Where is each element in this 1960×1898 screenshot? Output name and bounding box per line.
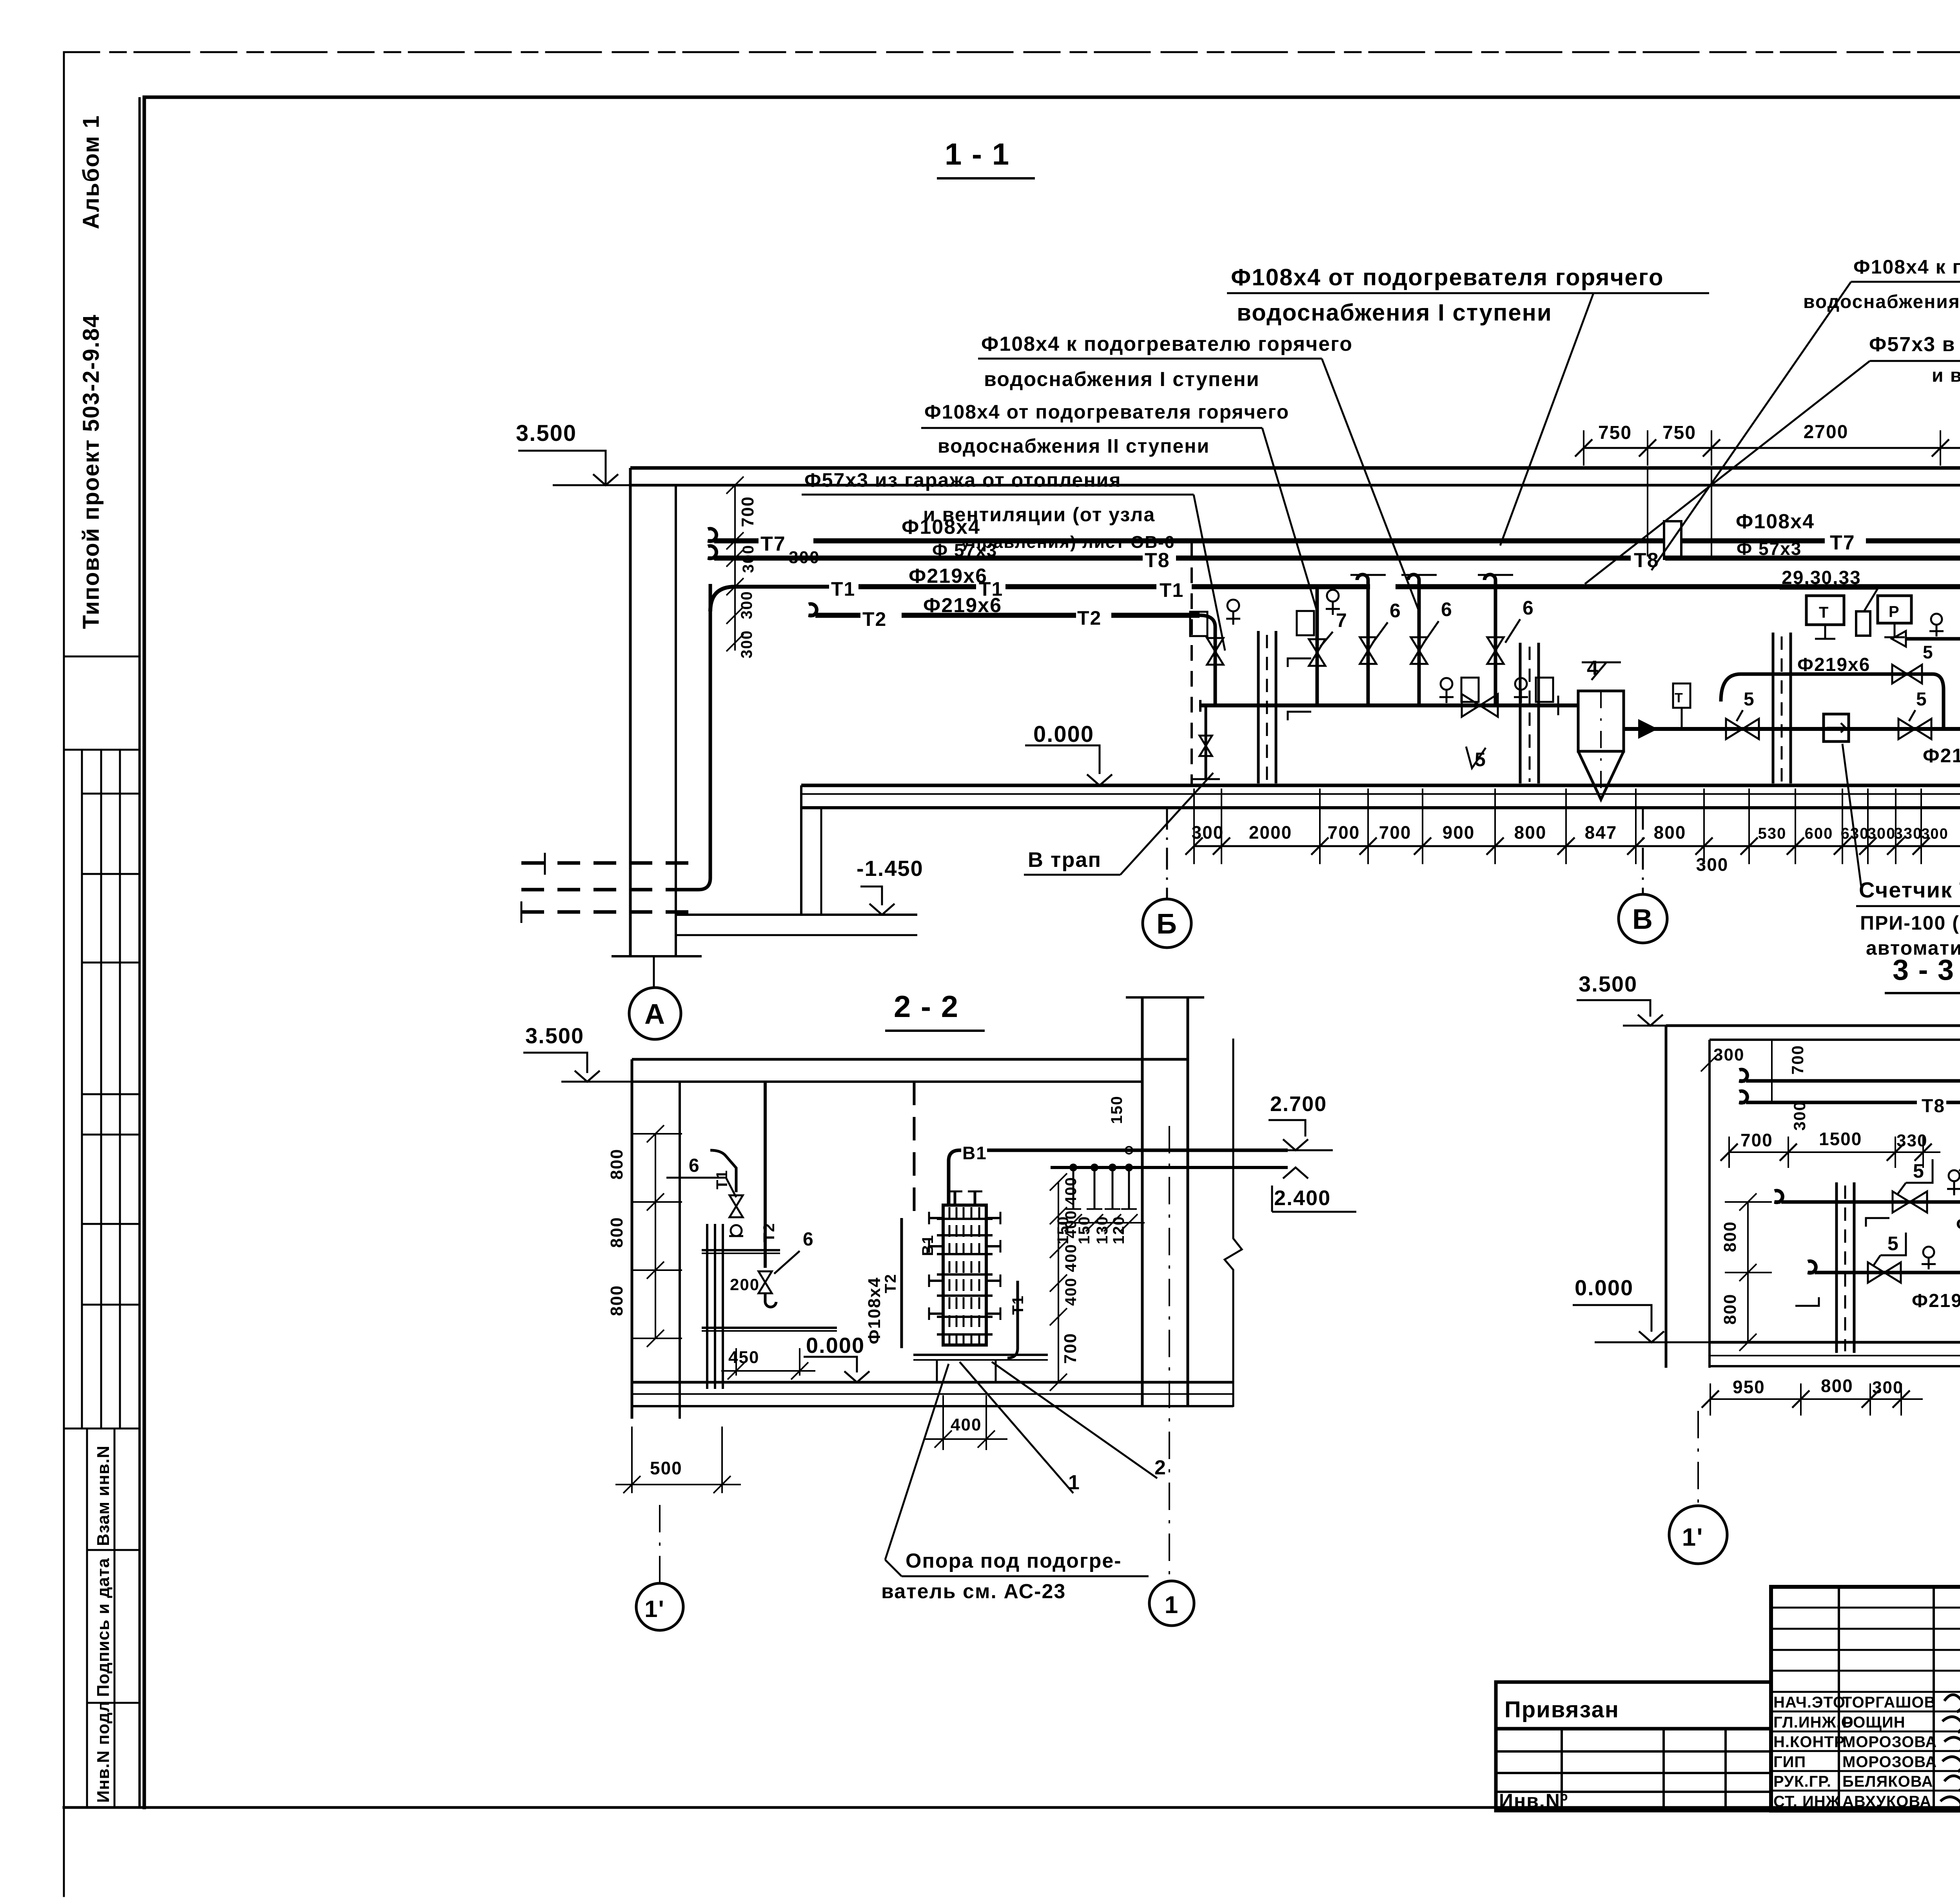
svg-text:ПРИ-100 (см. проект: ПРИ-100 (см. проект (1860, 912, 1960, 934)
svg-text:Т8: Т8 (1922, 1096, 1945, 1117)
svg-text:Т1: Т1 (831, 578, 855, 600)
svg-text:1': 1' (1682, 1523, 1704, 1551)
svg-text:Ф108х4: Ф108х4 (1736, 510, 1815, 533)
svg-text:900: 900 (1443, 822, 1475, 843)
svg-text:300: 300 (738, 591, 755, 619)
T2 elbow down at manifold start (1200, 615, 1215, 705)
svg-text:Привязан: Привязан (1504, 1697, 1619, 1722)
left margin table column lines (81, 750, 83, 1428)
svg-text:700: 700 (1061, 1333, 1080, 1364)
svg-text:водоснабжения II ступени: водоснабжения II ступени (938, 435, 1210, 457)
sheet outer border bottom (64, 1806, 1960, 1809)
svg-text:Ф108х4 к подогревателю горяче: Ф108х4 к подогревателю горячего (981, 333, 1353, 355)
svg-text:Т2: Т2 (862, 608, 887, 630)
svg-text:2000: 2000 (1249, 822, 1292, 843)
svg-text:6: 6 (689, 1155, 700, 1176)
valve 5 (second) on lower pipe (1898, 719, 1931, 739)
pipe T8 (3-3) (1739, 1091, 1747, 1103)
svg-text:Н.КОНТР.: Н.КОНТР. (1773, 1733, 1847, 1751)
ceiling slab section 1-1 (630, 466, 1960, 470)
svg-text:Инв.N подл: Инв.N подл (94, 1701, 113, 1803)
svg-text:600: 600 (1805, 825, 1833, 842)
svg-text:Т2: Т2 (1077, 607, 1102, 629)
svg-text:Взам инв.N: Взам инв.N (94, 1445, 113, 1546)
signature squiggles (1944, 1695, 1960, 1729)
column bubble 1 (2-2) (1149, 1581, 1194, 1626)
svg-text:Т2: Т2 (882, 1273, 899, 1293)
four take-off drops with dots (1069, 1164, 1077, 1171)
svg-text:800: 800 (1821, 1376, 1853, 1396)
left margin table row lines (64, 656, 140, 658)
svg-text:В: В (1632, 904, 1653, 935)
svg-text:Ф57х3 из гаража от отопления: Ф57х3 из гаража от отопления (804, 469, 1122, 491)
floor step to pit (800, 785, 802, 915)
pipe T2 (y=1570) (809, 604, 817, 616)
svg-text:0.000: 0.000 (806, 1333, 865, 1358)
heat exchanger (подогреватель) (943, 1205, 986, 1345)
svg-text:800: 800 (1514, 822, 1547, 843)
svg-text:5: 5 (1923, 642, 1934, 662)
pipe T7 (3-3) (1739, 1070, 1747, 1081)
svg-text:6: 6 (1523, 597, 1534, 619)
svg-text:Ф108х4 от подогревателя горяч: Ф108х4 от подогревателя горячего (924, 401, 1289, 423)
pipe rack 2-2 (706, 1224, 708, 1389)
svg-text:847: 847 (1585, 822, 1617, 843)
svg-text:700: 700 (1788, 1045, 1807, 1075)
support stand x=3890 (dashed pair) (1519, 643, 1522, 783)
vertical pipes at exchanger (913, 1082, 916, 1218)
svg-text:ГИП: ГИП (1773, 1753, 1806, 1771)
svg-text:700: 700 (1379, 822, 1412, 843)
svg-text:5: 5 (1475, 749, 1486, 770)
svg-text:Т8: Т8 (1145, 549, 1170, 572)
pit floor -1.450 (676, 914, 917, 916)
pipe y=1630 to separator (1906, 637, 1960, 641)
svg-text:Ф108х4: Ф108х4 (865, 1277, 884, 1344)
svg-text:МОРОЗОВА: МОРОЗОВА (1842, 1753, 1937, 1771)
signature table vertical dividers (1838, 1587, 1840, 1811)
dim 400 under exchanger (942, 1395, 944, 1450)
svg-text:800: 800 (607, 1285, 626, 1316)
pipe T1 (y=1497) (710, 587, 829, 611)
column bubble А (629, 988, 681, 1039)
svg-text:Т7: Т7 (1830, 531, 1855, 554)
svg-text:400: 400 (1062, 1177, 1080, 1205)
svg-text:Т8: Т8 (1634, 549, 1659, 572)
svg-text:Инв.Nº: Инв.Nº (1499, 1790, 1568, 1812)
svg-text:водоснабжения II ступени: водоснабжения II ступени (1803, 292, 1960, 312)
floor 0.000 (3-3) (1710, 1341, 1960, 1344)
check valve after tank (1624, 727, 1701, 731)
lower pipe y=1860 with fittings (1701, 727, 1960, 731)
extension verticals from top dim to pipes (1647, 466, 1648, 557)
svg-text:и вентиляцию (к узлу: и вентиляцию (к узлу (1932, 365, 1960, 386)
svg-text:БЕЛЯКОВА: БЕЛЯКОВА (1842, 1773, 1933, 1790)
svg-text:7: 7 (1336, 609, 1348, 631)
riser x=3815 (1485, 575, 1495, 705)
svg-text:2: 2 (1154, 1456, 1167, 1479)
axis dashed line of column Б (1191, 542, 1193, 784)
svg-text:700: 700 (738, 496, 757, 527)
dim chain 700 1500 330 (y=2940) (1729, 1151, 1940, 1153)
svg-text:330: 330 (1896, 1131, 1927, 1150)
svg-text:Альбом 1: Альбом 1 (78, 115, 104, 229)
valve 5 on manifold (1462, 694, 1498, 717)
svg-text:водоснабжения I ступени: водоснабжения I ступени (1237, 299, 1552, 326)
svg-text:-1.450: -1.450 (857, 856, 924, 881)
svg-text:Б: Б (1156, 908, 1178, 940)
svg-text:НАЧ.ЭТО: НАЧ.ЭТО (1773, 1694, 1846, 1711)
inline device on pipe T7 (1664, 521, 1681, 559)
svg-text:Типовой проект 503-2-9.84: Типовой проект 503-2-9.84 (78, 314, 104, 629)
floor slab 0.000 section 1-1 (801, 784, 1960, 787)
svg-text:29,30,33: 29,30,33 (1782, 567, 1861, 588)
bottom dim chain 950 800 300 (3-3) (1710, 1398, 1923, 1400)
svg-text:Ф219х6: Ф219х6 (909, 565, 987, 587)
svg-text:Опора под подогре-: Опора под подогре- (906, 1550, 1122, 1572)
left extension: Привязан box (1496, 1682, 1771, 1729)
svg-text:Т1: Т1 (1009, 1295, 1027, 1315)
svg-text:300: 300 (1872, 1378, 1903, 1397)
axis line to bubble 1 (1169, 1126, 1170, 1579)
svg-text:700: 700 (1740, 1130, 1773, 1150)
svg-text:А: А (644, 999, 666, 1030)
svg-text:Ф219х6: Ф219х6 (1923, 745, 1960, 767)
svg-text:750: 750 (1662, 422, 1696, 443)
svg-text:Р: Р (1889, 603, 1900, 620)
svg-text:1': 1' (644, 1596, 665, 1622)
left wall 3-3 (1665, 1026, 1668, 1368)
exchanger support (913, 1354, 1048, 1356)
svg-text:800: 800 (1720, 1294, 1740, 1325)
svg-text:750: 750 (1598, 422, 1632, 443)
svg-text:300: 300 (1192, 822, 1224, 843)
svg-text:2700: 2700 (1804, 422, 1849, 442)
svg-text:300: 300 (738, 630, 755, 658)
svg-text:0.000: 0.000 (1575, 1275, 1633, 1300)
svg-text:3.500: 3.500 (516, 421, 577, 446)
svg-text:2 - 2: 2 - 2 (894, 989, 959, 1024)
svg-text:Подпись и дата: Подпись и дата (94, 1558, 113, 1697)
dirt trap tank 4 (left) (1552, 703, 1578, 707)
left extension lower grid (1496, 1729, 1771, 1811)
svg-text:150: 150 (1108, 1095, 1125, 1124)
svg-text:В трап: В трап (1028, 848, 1102, 872)
svg-text:6: 6 (1390, 600, 1401, 622)
svg-text:6: 6 (803, 1229, 814, 1250)
drain riser to trap (1207, 638, 1223, 665)
pipe T8 (y=1424) (708, 546, 717, 558)
svg-text:Ф57х3 в гараж на отопление: Ф57х3 в гараж на отопление (1869, 333, 1960, 356)
svg-text:ТОРГАШОВ: ТОРГАШОВ (1842, 1694, 1936, 1711)
svg-text:6: 6 (1441, 598, 1453, 620)
riser x=3490 (1357, 575, 1368, 705)
svg-text:Ф219х6: Ф219х6 (923, 594, 1002, 617)
svg-text:Т1: Т1 (713, 1169, 731, 1189)
exchanger side flanges (929, 1217, 943, 1219)
column bubble В (1619, 894, 1667, 943)
svg-text:РОЩИН: РОЩИН (1842, 1714, 1906, 1731)
svg-text:400: 400 (1062, 1277, 1080, 1306)
svg-text:300: 300 (1696, 854, 1729, 875)
column bubble Б (1143, 899, 1191, 948)
floor slab 2-2 (632, 1381, 1233, 1384)
svg-text:и вентиляции (от узла: и вентиляции (от узла (923, 504, 1155, 526)
svg-text:330: 330 (1894, 825, 1923, 842)
support stand (hatched column) x=3232 (1257, 631, 1260, 783)
svg-text:2.700: 2.700 (1270, 1092, 1327, 1116)
B1 water pipe y=2935 (949, 1150, 961, 1204)
vertical dim chain 800 800 (3-3) (1747, 1202, 1749, 1342)
right vertical dim chain 400x4+700 (2-2) (1058, 1182, 1059, 1382)
bottom dimension chain (1194, 845, 1960, 847)
left vertical dim chain 800x3 (2-2) (655, 1134, 656, 1338)
svg-text:АВХУКОВА: АВХУКОВА (1842, 1793, 1931, 1810)
left wall section 1-1 (629, 468, 632, 956)
axis line + bubble 1prime (2-2) (659, 1505, 661, 1583)
riser x=3620 (1408, 575, 1419, 705)
left wall 2-2 (631, 1059, 633, 1419)
svg-text:2.400: 2.400 (1274, 1186, 1331, 1210)
wall footing tick (612, 955, 702, 957)
riser x=3360 from T1 (1316, 587, 1319, 705)
support stand x=4545 (1772, 633, 1775, 783)
instrument boxes T and P with 29,30,33 callout (1806, 596, 1844, 625)
svg-text:СТ. ИНЖ: СТ. ИНЖ (1773, 1793, 1840, 1810)
svg-text:300: 300 (1790, 1101, 1809, 1131)
svg-text:800: 800 (607, 1149, 626, 1180)
svg-text:Ф 57х3: Ф 57х3 (1737, 538, 1802, 559)
sheet outer border left (63, 52, 65, 1896)
svg-text:Счетчик ТС-20: Счетчик ТС-20 (1859, 877, 1960, 902)
upper pipe Ф219х6 (3-3) y=3067 (1775, 1191, 1782, 1202)
svg-text:950: 950 (1733, 1377, 1765, 1397)
svg-text:1: 1 (1165, 1592, 1179, 1619)
riser dropping to buried pipe (684, 584, 710, 890)
svg-text:В1: В1 (919, 1235, 936, 1256)
svg-text:Ф219х6: Ф219х6 (1956, 1214, 1960, 1235)
svg-text:МОРОЗОВА: МОРОЗОВА (1842, 1733, 1937, 1751)
lower pipe Ф219х6 (3-3) y=3247 (1808, 1261, 1816, 1273)
svg-text:1500: 1500 (1819, 1129, 1862, 1149)
riser T2 (2-2) x=1952 (764, 1082, 767, 1268)
svg-text:5: 5 (1887, 1233, 1899, 1254)
sheet outer border top (dashed scan edge) (64, 51, 1960, 53)
svg-text:В1: В1 (962, 1143, 987, 1163)
svg-text:800: 800 (607, 1217, 626, 1248)
svg-text:400: 400 (1062, 1210, 1080, 1238)
svg-text:Ф108х4 к подогревателю горяче: Ф108х4 к подогревателю горячего (1853, 256, 1960, 278)
support stand (3-3) (1835, 1182, 1838, 1353)
svg-text:водоснабжения I ступени: водоснабжения I ступени (984, 368, 1260, 391)
svg-text:120: 120 (1110, 1216, 1127, 1244)
top dimension chain 750 750 2700 847 1500 300 (1584, 447, 1960, 449)
lower distribution pipe y=2979 (1051, 1166, 1288, 1169)
svg-text:700: 700 (1328, 822, 1360, 843)
ceiling slab 3-3 (1666, 1024, 1960, 1027)
svg-text:300: 300 (740, 544, 757, 573)
ceiling slab 2-2 (632, 1058, 1188, 1061)
svg-text:Т2: Т2 (760, 1222, 778, 1242)
left margin lower cells (86, 1428, 88, 1807)
svg-text:Ф108х4 от подогревателя горяч: Ф108х4 от подогревателя горячего (1231, 264, 1664, 290)
svg-text:Ф219х6: Ф219х6 (1797, 654, 1870, 675)
svg-text:800: 800 (1654, 822, 1686, 843)
svg-text:1 - 1: 1 - 1 (945, 137, 1010, 171)
buried pipes (dashed) through left wall (521, 861, 690, 865)
svg-text:800: 800 (1720, 1221, 1740, 1252)
upper bypass pipe y=1720 (1721, 674, 1944, 729)
svg-text:500: 500 (650, 1458, 682, 1478)
svg-text:ГЛ.ИНЖ.О: ГЛ.ИНЖ.О (1773, 1714, 1854, 1731)
svg-text:5: 5 (1916, 689, 1927, 710)
svg-text:Т: Т (1819, 604, 1829, 621)
svg-text:Т1: Т1 (1160, 579, 1184, 601)
svg-text:3 - 3: 3 - 3 (1893, 954, 1955, 986)
svg-text:300: 300 (789, 548, 820, 567)
svg-text:Ф219х6: Ф219х6 (1912, 1291, 1960, 1311)
column 2-2 (1141, 997, 1144, 1407)
svg-text:3.500: 3.500 (1579, 972, 1637, 996)
title block main outline (1771, 1587, 1960, 1811)
valve 5 on lower pipe (1726, 719, 1759, 739)
riser T1 (2-2) x=1878 (710, 1150, 736, 1192)
svg-text:Т7: Т7 (760, 533, 786, 555)
manifold horizontal pipe y=1800 (1199, 700, 1201, 712)
svg-text:300: 300 (1867, 825, 1896, 842)
signature table row lines (1771, 1607, 1960, 1609)
svg-text:0.000: 0.000 (1033, 721, 1094, 747)
dim 500 below wall (2-2) (631, 1427, 633, 1493)
svg-text:400: 400 (1062, 1244, 1080, 1272)
svg-text:200: 200 (730, 1275, 760, 1294)
svg-text:РУК.ГР.: РУК.ГР. (1773, 1773, 1831, 1790)
svg-text:Т: Т (1675, 691, 1683, 705)
svg-text:400: 400 (951, 1415, 982, 1434)
svg-text:300: 300 (1921, 826, 1948, 842)
svg-text:530: 530 (1758, 825, 1787, 842)
left vertical dims 700 300 300 (734, 485, 736, 631)
svg-text:5: 5 (1744, 689, 1755, 710)
axis + bubble 1prime (3-3) (1697, 1411, 1699, 1504)
break line right edge 2-2 (1225, 1039, 1242, 1407)
svg-text:3.500: 3.500 (525, 1023, 584, 1048)
svg-text:ватель см. АС-23: ватель см. АС-23 (881, 1580, 1066, 1603)
svg-text:управления) лист ОВ-6: управления) лист ОВ-6 (960, 533, 1175, 552)
svg-text:4: 4 (1587, 657, 1599, 680)
pipe T7 (y=1380) (708, 529, 717, 541)
flow meter TC-20 (1824, 714, 1849, 741)
